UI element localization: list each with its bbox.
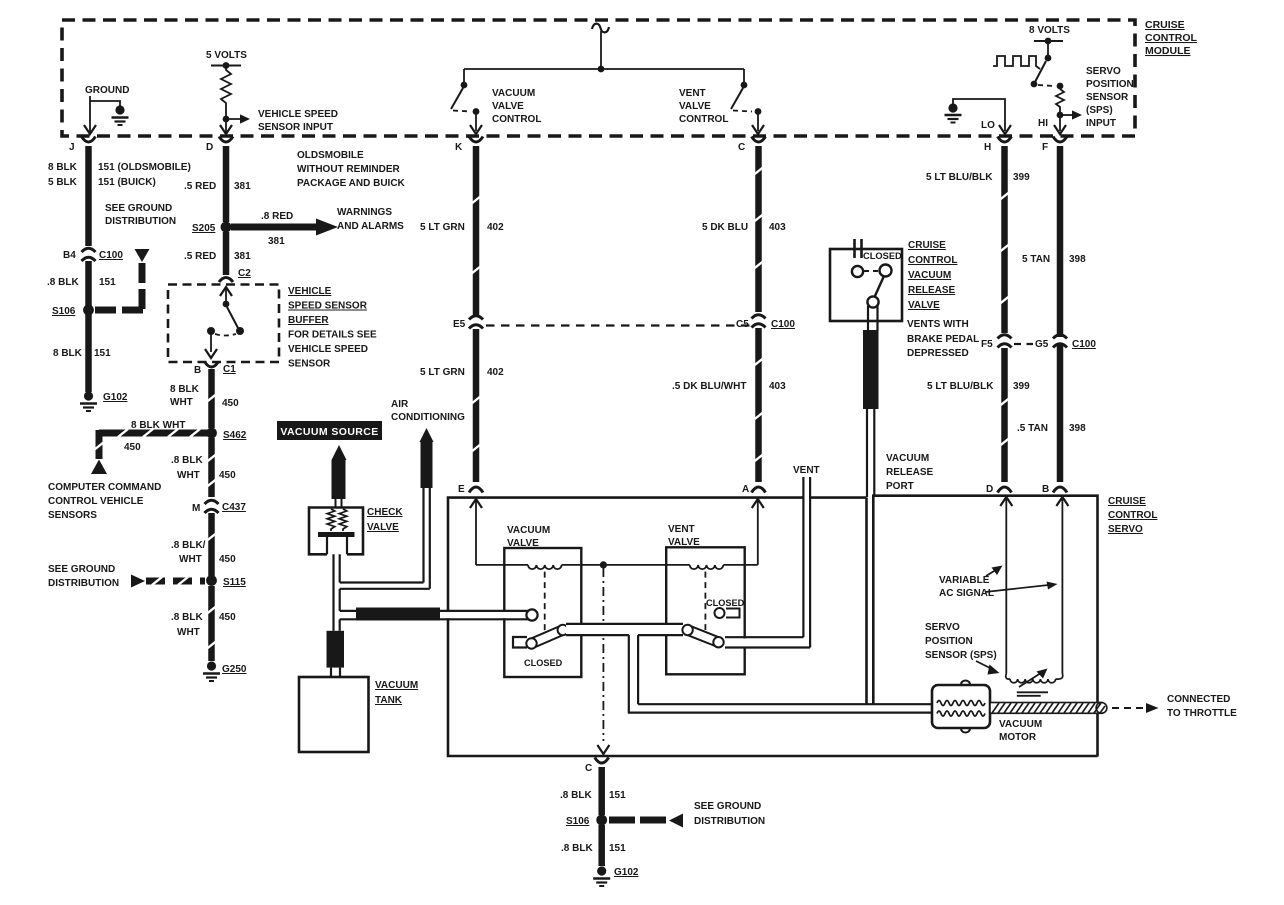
svg-text:F: F bbox=[1042, 142, 1048, 153]
actuator rod (hatched) bbox=[990, 703, 1107, 714]
svg-text:VARIABLE: VARIABLE bbox=[939, 575, 990, 586]
vent valve box bbox=[666, 547, 745, 674]
svg-text:WHT: WHT bbox=[170, 397, 193, 408]
svg-text:5 DK BLU: 5 DK BLU bbox=[702, 222, 748, 233]
servo position sensor element bbox=[1006, 669, 1063, 696]
svg-text:CONTROL VEHICLE: CONTROL VEHICLE bbox=[48, 496, 144, 507]
svg-text:VEHICLE SPEED: VEHICLE SPEED bbox=[258, 109, 338, 120]
wire C lower (.5 DK BLU/WHT 403) bbox=[754, 328, 764, 482]
ground (module internal, right) bbox=[945, 99, 1012, 134]
svg-text:.8 BLK: .8 BLK bbox=[561, 843, 593, 854]
svg-text:399: 399 bbox=[1013, 172, 1030, 183]
svg-text:CLOSED: CLOSED bbox=[863, 251, 902, 261]
svg-text:DISTRIBUTION: DISTRIBUTION bbox=[694, 816, 765, 827]
svg-text:VEHICLE: VEHICLE bbox=[288, 286, 332, 297]
splice S106 bbox=[52, 305, 94, 317]
svg-text:BUFFER: BUFFER bbox=[288, 315, 329, 326]
svg-text:VALVE: VALVE bbox=[492, 101, 524, 112]
tube: supply into vacuum valve port bbox=[340, 611, 528, 619]
vacuum source label bbox=[277, 421, 382, 508]
svg-text:C1: C1 bbox=[223, 364, 236, 375]
ground G102 (bottom) bbox=[593, 866, 639, 886]
svg-text:.8 BLK: .8 BLK bbox=[171, 455, 203, 466]
svg-text:C: C bbox=[738, 142, 745, 153]
svg-text:COMPUTER COMMAND: COMPUTER COMMAND bbox=[48, 482, 161, 493]
svg-text:VACUUM: VACUUM bbox=[886, 453, 929, 464]
svg-text:M: M bbox=[192, 503, 200, 514]
svg-text:402: 402 bbox=[487, 222, 504, 233]
connector C2 bbox=[219, 268, 251, 282]
tube: vent flapper to vent riser bbox=[725, 637, 810, 647]
svg-text:151 (BUICK): 151 (BUICK) bbox=[98, 177, 156, 188]
pin B / connector C1 bbox=[194, 362, 236, 377]
svg-text:RELEASE: RELEASE bbox=[886, 467, 934, 478]
wire D inside servo (variable AC signal) bbox=[1000, 497, 1012, 674]
svg-text:TANK: TANK bbox=[375, 695, 403, 706]
svg-text:.8 BLK: .8 BLK bbox=[560, 790, 592, 801]
center feed with break squiggle bbox=[464, 24, 744, 73]
svg-text:SENSOR INPUT: SENSOR INPUT bbox=[258, 122, 333, 133]
wire D upper (.5 RED 381) bbox=[223, 146, 230, 222]
wire C bottom upper (.8 BLK 151) bbox=[598, 767, 605, 815]
wire vent coil to A bbox=[723, 499, 764, 565]
svg-text:VENT: VENT bbox=[793, 465, 820, 476]
vacuum valve port circle bbox=[526, 609, 537, 620]
svg-text:151: 151 bbox=[609, 843, 626, 854]
svg-text:C100: C100 bbox=[99, 250, 123, 261]
svg-text:INPUT: INPUT bbox=[1086, 118, 1116, 129]
tube: tee down to vacuum motor bbox=[629, 635, 932, 714]
vacuum valve box bbox=[504, 548, 581, 677]
svg-text:SENSORS: SENSORS bbox=[48, 510, 97, 521]
pin K bbox=[455, 137, 483, 154]
svg-text:J: J bbox=[69, 142, 75, 153]
svg-text:POSITION: POSITION bbox=[1086, 79, 1134, 90]
ground G102 (left) bbox=[80, 391, 128, 411]
vacuum motor bbox=[932, 681, 1042, 744]
svg-text:HI: HI bbox=[1038, 118, 1048, 129]
wire B inside servo bbox=[1056, 497, 1068, 674]
vent valve flapper bbox=[682, 625, 723, 648]
vacuum release port text bbox=[886, 453, 934, 492]
pin H bbox=[984, 137, 1012, 154]
svg-text:DISTRIBUTION: DISTRIBUTION bbox=[105, 216, 176, 227]
cruise control module dashed box bbox=[62, 20, 1135, 136]
svg-text:.5 DK BLU/WHT: .5 DK BLU/WHT bbox=[672, 381, 746, 392]
svg-text:SENSOR: SENSOR bbox=[288, 359, 331, 370]
svg-text:DEPRESSED: DEPRESSED bbox=[907, 348, 969, 359]
svg-text:8 BLK WHT: 8 BLK WHT bbox=[131, 420, 185, 431]
junction node bbox=[600, 561, 607, 568]
wire coil to junction bbox=[562, 564, 690, 566]
svg-text:381: 381 bbox=[268, 236, 285, 247]
svg-text:(SPS): (SPS) bbox=[1086, 105, 1113, 116]
connector C100 (F5 / G5) bbox=[981, 335, 1096, 350]
S462 branch to computer command control (8 BLK WHT 450) bbox=[48, 420, 207, 521]
svg-text:WITHOUT REMINDER: WITHOUT REMINDER bbox=[297, 164, 401, 175]
svg-text:151: 151 bbox=[99, 277, 116, 288]
svg-text:CRUISE: CRUISE bbox=[908, 240, 946, 251]
wire 450 col seg3 (.8 BLK/WHT) bbox=[207, 513, 217, 576]
svg-text:MODULE: MODULE bbox=[1145, 45, 1191, 57]
pin A chevron into servo area bbox=[742, 484, 766, 495]
svg-text:G250: G250 bbox=[222, 664, 247, 675]
svg-text:VACUUM: VACUUM bbox=[999, 719, 1042, 730]
svg-text:C5: C5 bbox=[736, 319, 749, 330]
svg-text:SERVO: SERVO bbox=[1108, 524, 1143, 535]
svg-text:CONTROL: CONTROL bbox=[1108, 510, 1157, 521]
buffer internal switch bbox=[205, 287, 244, 358]
svg-text:VALVE: VALVE bbox=[668, 537, 700, 548]
svg-text:399: 399 bbox=[1013, 381, 1030, 392]
svg-text:WHT: WHT bbox=[177, 470, 200, 481]
svg-text:.5 RED: .5 RED bbox=[184, 251, 216, 262]
wire J middle (.8 BLK 151) bbox=[85, 261, 92, 306]
svg-text:CONNECTED: CONNECTED bbox=[1167, 694, 1230, 705]
svg-text:381: 381 bbox=[234, 181, 251, 192]
tube check valve down to tank bbox=[334, 554, 340, 631]
svg-text:403: 403 bbox=[769, 222, 786, 233]
svg-text:VENT: VENT bbox=[679, 88, 706, 99]
svg-text:.8 RED: .8 RED bbox=[261, 211, 293, 222]
svg-text:LO: LO bbox=[981, 120, 995, 131]
svg-text:VALVE: VALVE bbox=[908, 300, 940, 311]
svg-text:151: 151 bbox=[94, 348, 111, 359]
svg-text:BRAKE PEDAL: BRAKE PEDAL bbox=[907, 334, 979, 345]
svg-text:8 VOLTS: 8 VOLTS bbox=[1029, 25, 1070, 36]
svg-text:SEE GROUND: SEE GROUND bbox=[694, 801, 761, 812]
dashed link E5 to C5 bbox=[486, 324, 750, 326]
vacuum valve closed stub bbox=[513, 637, 563, 668]
svg-text:DISTRIBUTION: DISTRIBUTION bbox=[48, 578, 119, 589]
pin F bbox=[1042, 137, 1067, 154]
wire K upper (5 LT GRN 402) bbox=[471, 146, 481, 316]
svg-text:H: H bbox=[984, 142, 991, 153]
see ground distribution arrow into S115 bbox=[48, 564, 205, 589]
svg-text:RELEASE: RELEASE bbox=[908, 285, 956, 296]
wire C bottom lower (.8 BLK 151) bbox=[598, 825, 605, 866]
ground G250 bbox=[203, 661, 247, 681]
svg-text:MOTOR: MOTOR bbox=[999, 732, 1037, 743]
dashed armature line (vacuum valve) bbox=[544, 572, 546, 632]
wire H upper (5 LT BLU/BLK 399) bbox=[1000, 146, 1010, 333]
svg-text:CONTROL: CONTROL bbox=[492, 114, 541, 125]
svg-text:G5: G5 bbox=[1035, 339, 1049, 350]
svg-text:D: D bbox=[206, 142, 213, 153]
svg-text:151: 151 bbox=[609, 790, 626, 801]
svg-text:VACUUM: VACUUM bbox=[908, 270, 951, 281]
svg-text:G102: G102 bbox=[103, 392, 128, 403]
svg-text:VALVE: VALVE bbox=[679, 101, 711, 112]
5 volts source w/ resistor (module internal) bbox=[206, 50, 338, 134]
svg-text:S115: S115 bbox=[223, 577, 246, 588]
vent riser tube bbox=[793, 465, 820, 648]
svg-text:398: 398 bbox=[1069, 423, 1086, 434]
svg-text:450: 450 bbox=[219, 612, 236, 623]
hose vertical to tank bbox=[327, 631, 345, 677]
svg-text:VACUUM: VACUUM bbox=[492, 88, 535, 99]
svg-text:OLDSMOBILE: OLDSMOBILE bbox=[297, 150, 364, 161]
svg-text:8 BLK: 8 BLK bbox=[48, 162, 78, 173]
svg-text:PACKAGE AND BUICK: PACKAGE AND BUICK bbox=[297, 178, 406, 189]
svg-text:402: 402 bbox=[487, 367, 504, 378]
svg-text:E: E bbox=[458, 484, 465, 495]
svg-text:CHECK: CHECK bbox=[367, 507, 403, 518]
svg-text:C100: C100 bbox=[771, 319, 795, 330]
wire 450 col seg4 (.8 BLK WHT) bbox=[207, 586, 217, 661]
svg-text:SENSOR: SENSOR bbox=[1086, 92, 1129, 103]
wire K lower (5 LT GRN 402) bbox=[471, 329, 481, 482]
svg-text:151 (OLDSMOBILE): 151 (OLDSMOBILE) bbox=[98, 162, 191, 173]
svg-text:FOR DETAILS SEE: FOR DETAILS SEE bbox=[288, 330, 377, 341]
svg-text:CONTROL: CONTROL bbox=[679, 114, 728, 125]
tube: between flappers bbox=[566, 624, 684, 635]
label CRUISE CONTROL SERVO bbox=[1108, 496, 1157, 535]
svg-text:VACUUM SOURCE: VACUUM SOURCE bbox=[280, 426, 378, 438]
svg-text:F5: F5 bbox=[981, 339, 993, 350]
svg-text:CONTROL: CONTROL bbox=[908, 255, 957, 266]
svg-text:AND ALARMS: AND ALARMS bbox=[337, 221, 404, 232]
svg-text:CRUISE: CRUISE bbox=[1145, 19, 1185, 31]
pin D bbox=[206, 137, 233, 154]
svg-text:.8 BLK: .8 BLK bbox=[47, 277, 79, 288]
svg-text:VALVE: VALVE bbox=[367, 522, 399, 533]
svg-text:.5 TAN: .5 TAN bbox=[1017, 423, 1048, 434]
pin B chevron into servo bbox=[1042, 484, 1067, 495]
svg-text:S106: S106 bbox=[52, 306, 76, 317]
svg-text:8 BLK: 8 BLK bbox=[170, 384, 200, 395]
S205 arrow to warnings and alarms (.8 RED 381) bbox=[231, 207, 404, 247]
variable AC signal labels + arrows bbox=[939, 566, 1058, 600]
label CRUISE CONTROL MODULE bbox=[1145, 19, 1197, 57]
dashed armature line (vent valve) bbox=[704, 572, 706, 630]
svg-text:WARNINGS: WARNINGS bbox=[337, 207, 392, 218]
vacuum valve flapper bbox=[526, 625, 568, 649]
svg-text:S205: S205 bbox=[192, 223, 216, 234]
svg-text:SENSOR (SPS): SENSOR (SPS) bbox=[925, 650, 997, 661]
svg-text:450: 450 bbox=[124, 442, 141, 453]
svg-text:403: 403 bbox=[769, 381, 786, 392]
splice S462 bbox=[206, 428, 247, 441]
svg-text:.5 RED: .5 RED bbox=[184, 181, 216, 192]
connector C100 (C5) bbox=[736, 315, 795, 330]
svg-text:SEE GROUND: SEE GROUND bbox=[48, 564, 115, 575]
svg-text:AIR: AIR bbox=[391, 399, 409, 410]
svg-text:CLOSED: CLOSED bbox=[524, 658, 563, 668]
svg-text:S462: S462 bbox=[223, 430, 247, 441]
vehicle speed sensor buffer dashed box bbox=[168, 285, 279, 363]
svg-text:VEHICLE SPEED: VEHICLE SPEED bbox=[288, 344, 368, 355]
svg-text:450: 450 bbox=[219, 554, 236, 565]
svg-text:5 LT BLU/BLK: 5 LT BLU/BLK bbox=[926, 172, 993, 183]
connector C437 (M) bbox=[192, 500, 246, 514]
pin C bbox=[738, 137, 766, 154]
servo position sensor labels + arrow bbox=[925, 622, 1000, 675]
splice S106 (bottom) bbox=[566, 815, 607, 827]
cruise control vacuum release valve box bbox=[830, 239, 902, 321]
svg-text:450: 450 bbox=[219, 470, 236, 481]
vent valve closed symbol bbox=[706, 598, 745, 618]
check valve bbox=[309, 507, 403, 554]
vent valve coil bbox=[690, 565, 724, 569]
pin E chevron into servo area bbox=[458, 484, 483, 495]
connector E5 bbox=[453, 316, 483, 330]
svg-text:CRUISE: CRUISE bbox=[1108, 496, 1146, 507]
pin C below servo section bbox=[585, 758, 609, 775]
buffer text bbox=[288, 286, 377, 370]
release valve text bbox=[907, 240, 979, 359]
svg-text:SERVO: SERVO bbox=[1086, 66, 1121, 77]
svg-text:5 TAN: 5 TAN bbox=[1022, 254, 1050, 265]
svg-text:C437: C437 bbox=[222, 502, 246, 513]
svg-text:CONTROL: CONTROL bbox=[1145, 32, 1197, 44]
svg-text:TO THROTTLE: TO THROTTLE bbox=[1167, 708, 1237, 719]
wire J lower (8 BLK 151) bbox=[85, 313, 92, 392]
svg-text:VENTS WITH: VENTS WITH bbox=[907, 319, 969, 330]
wire 450 col seg2 (.8 BLK WHT) bbox=[207, 438, 217, 497]
svg-text:398: 398 bbox=[1069, 254, 1086, 265]
hose horizontal (black) bbox=[356, 608, 440, 621]
svg-text:PORT: PORT bbox=[886, 481, 914, 492]
wire D lower (.5 RED 381) bbox=[223, 232, 230, 275]
svg-text:SERVO: SERVO bbox=[925, 622, 960, 633]
svg-text:CONDITIONING: CONDITIONING bbox=[391, 412, 465, 423]
wire J upper (8 BLK 151) bbox=[85, 146, 92, 246]
svg-text:VACUUM: VACUUM bbox=[375, 680, 418, 691]
svg-text:AC SIGNAL: AC SIGNAL bbox=[939, 588, 994, 599]
release valve tube down bbox=[863, 306, 879, 497]
vacuum valve control switch (module internal) bbox=[451, 69, 541, 134]
wire F lower (.5 TAN 398) bbox=[1057, 344, 1064, 482]
wire E into vacuum valve coil bbox=[470, 499, 528, 565]
dashed arrow connected to throttle bbox=[1112, 694, 1237, 719]
svg-text:SEE GROUND: SEE GROUND bbox=[105, 203, 172, 214]
svg-text:SPEED SENSOR: SPEED SENSOR bbox=[288, 301, 368, 312]
svg-text:C100: C100 bbox=[1072, 339, 1096, 350]
connector C100 (B4) bbox=[63, 248, 123, 261]
svg-text:5 VOLTS: 5 VOLTS bbox=[206, 50, 247, 61]
svg-text:VALVE: VALVE bbox=[507, 538, 539, 549]
svg-text:D: D bbox=[986, 484, 993, 495]
svg-text:5 LT GRN: 5 LT GRN bbox=[420, 367, 465, 378]
svg-text:.8 BLK: .8 BLK bbox=[171, 612, 203, 623]
vacuum tank bbox=[299, 677, 418, 752]
svg-text:.8 BLK/: .8 BLK/ bbox=[171, 540, 206, 551]
wire H lower (5 LT BLU/BLK 399) bbox=[1000, 348, 1010, 482]
svg-text:B: B bbox=[194, 365, 201, 376]
wire F upper (5 TAN 398) bbox=[1057, 146, 1064, 337]
svg-text:K: K bbox=[455, 142, 463, 153]
svg-text:VENT: VENT bbox=[668, 524, 695, 535]
ground (module internal, left) bbox=[84, 85, 129, 134]
svg-text:B4: B4 bbox=[63, 250, 76, 261]
svg-text:A: A bbox=[742, 484, 749, 495]
pin D chevron into servo bbox=[986, 484, 1012, 495]
8 volts source w/ square wave + switch + resistor (module internal) bbox=[993, 25, 1134, 134]
svg-text:5 LT GRN: 5 LT GRN bbox=[420, 222, 465, 233]
svg-text:POSITION: POSITION bbox=[925, 636, 973, 647]
wire 450 col seg1 (8 BLK WHT) bbox=[207, 369, 217, 428]
dash-dot line junction to pin C bbox=[597, 568, 609, 754]
pin J bbox=[69, 137, 96, 154]
svg-text:5 LT BLU/BLK: 5 LT BLU/BLK bbox=[927, 381, 994, 392]
wire C upper (5 DK BLU 403) bbox=[754, 146, 764, 312]
cruise control servo box bbox=[873, 496, 1097, 757]
svg-text:C2: C2 bbox=[238, 268, 251, 279]
left servo section box bbox=[448, 498, 1098, 756]
svg-text:8 BLK: 8 BLK bbox=[53, 348, 83, 359]
svg-text:CLOSED: CLOSED bbox=[706, 598, 745, 608]
svg-text:381: 381 bbox=[234, 251, 251, 262]
S106 branch to ground distribution (bottom) bbox=[609, 801, 765, 828]
S106 branch to ground distribution (dashed thick, triangle) bbox=[95, 249, 150, 310]
air conditioning source bbox=[340, 399, 465, 589]
svg-text:WHT: WHT bbox=[179, 554, 202, 565]
svg-text:S106: S106 bbox=[566, 816, 590, 827]
svg-text:5 BLK: 5 BLK bbox=[48, 177, 78, 188]
svg-text:VACUUM: VACUUM bbox=[507, 525, 550, 536]
splice S205 bbox=[192, 222, 231, 234]
svg-text:B: B bbox=[1042, 484, 1049, 495]
splice S115 bbox=[206, 575, 246, 588]
vent valve control switch (module internal) bbox=[679, 69, 764, 134]
svg-text:G102: G102 bbox=[614, 867, 639, 878]
svg-text:E5: E5 bbox=[453, 319, 466, 330]
svg-text:GROUND: GROUND bbox=[85, 85, 129, 96]
svg-text:WHT: WHT bbox=[177, 627, 200, 638]
svg-text:450: 450 bbox=[222, 398, 239, 409]
vacuum valve coil bbox=[528, 565, 562, 569]
svg-text:C: C bbox=[585, 763, 592, 774]
